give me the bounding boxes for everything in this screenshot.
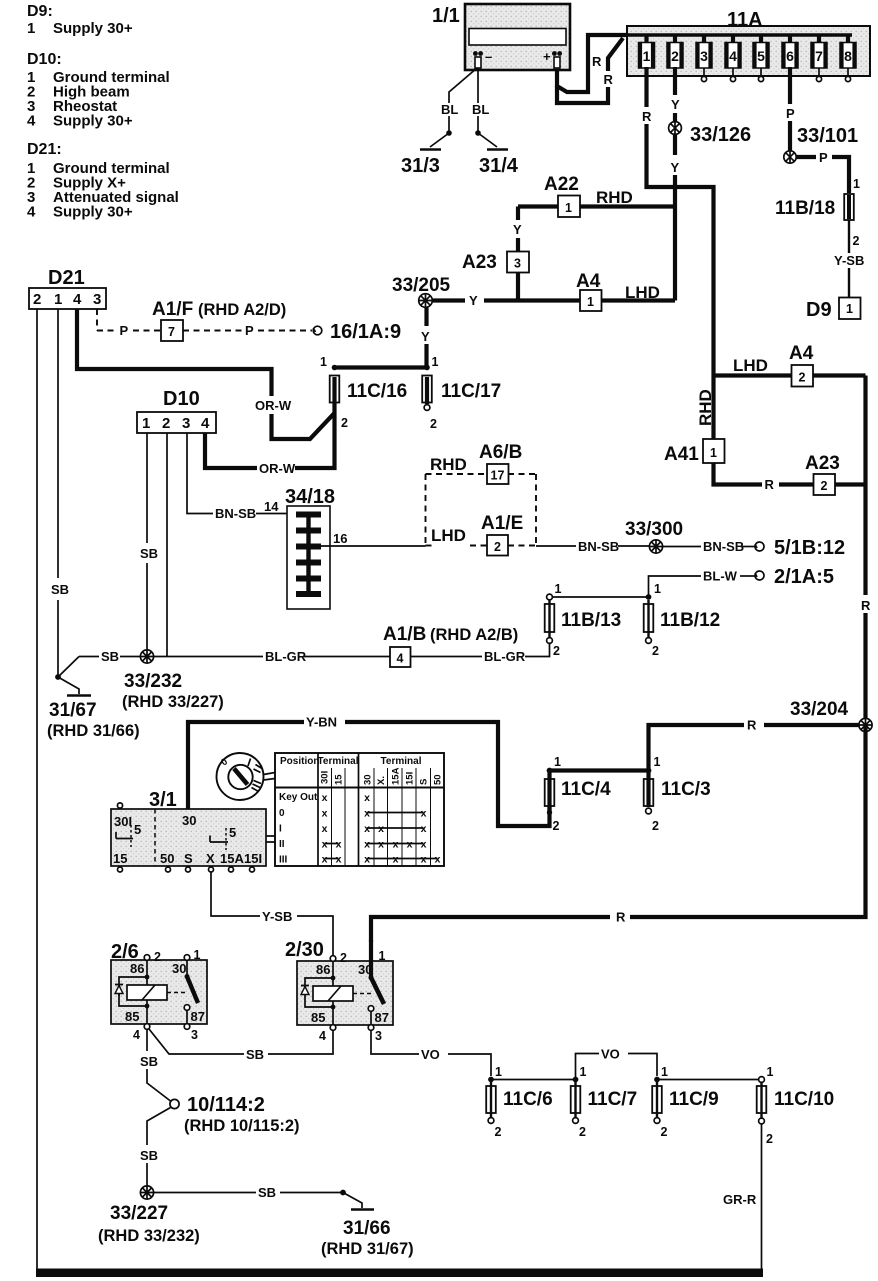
svg-text:P: P (245, 323, 254, 338)
svg-text:I: I (279, 824, 282, 835)
svg-text:III: III (279, 855, 288, 866)
svg-text:50: 50 (433, 774, 444, 785)
svg-text:3: 3 (700, 48, 708, 64)
relay 2/30 (285, 939, 393, 1043)
fuse 1 (639, 35, 655, 68)
svg-text:30: 30 (172, 961, 186, 976)
svg-text:8: 8 (844, 48, 852, 64)
svg-text:SB: SB (258, 1185, 276, 1200)
svg-text:31/66: 31/66 (343, 1218, 391, 1239)
svg-text:1: 1 (853, 177, 860, 191)
ground 31/67 (47, 657, 140, 741)
wire Y from fuse 2 down (673, 67, 677, 95)
relay 2/6 (111, 941, 207, 1042)
svg-text:31/3: 31/3 (401, 155, 440, 177)
svg-text:5: 5 (757, 48, 765, 64)
svg-text:15I: 15I (244, 851, 262, 866)
fuse box 11A (588, 9, 870, 76)
svg-text:3: 3 (182, 415, 190, 432)
svg-text:2: 2 (553, 819, 560, 833)
connector 11B/12 (644, 582, 721, 658)
splice 33/204 (790, 699, 872, 732)
svg-text:x: x (364, 854, 370, 866)
svg-text:x: x (322, 839, 328, 851)
svg-text:4: 4 (27, 113, 36, 130)
svg-text:33/227: 33/227 (110, 1203, 168, 1224)
svg-text:A6/B: A6/B (479, 442, 522, 463)
svg-text:11C/9: 11C/9 (669, 1089, 719, 1110)
svg-text:D21:: D21: (27, 141, 62, 158)
svg-text:1: 1 (142, 415, 150, 432)
wire P from fuse 6 down (788, 67, 792, 104)
fuse 2 (667, 35, 683, 68)
svg-text:Supply 30+: Supply 30+ (53, 204, 133, 221)
connector D10 (137, 388, 216, 433)
svg-text:(RHD 31/66): (RHD 31/66) (47, 722, 140, 740)
svg-text:11B/18: 11B/18 (775, 198, 835, 219)
svg-text:33/205: 33/205 (392, 275, 451, 296)
wire Y-BN from ignition to 11C/4 (188, 722, 304, 820)
svg-text:BL-W: BL-W (703, 569, 738, 584)
wire Y from splice down to 11C/17 (424, 307, 428, 326)
wire R right vertical (863, 376, 867, 596)
wire label R on loop B with gap (602, 71, 614, 87)
svg-text:2: 2 (430, 417, 437, 431)
svg-text:x: x (421, 823, 427, 835)
svg-text:R: R (642, 109, 652, 124)
svg-text:x: x (336, 854, 342, 866)
svg-text:P: P (786, 106, 795, 121)
svg-text:LHD: LHD (625, 283, 660, 302)
svg-text:R: R (747, 718, 757, 733)
svg-text:A1/E: A1/E (481, 513, 523, 534)
svg-text:x: x (322, 823, 328, 835)
svg-text:1: 1 (379, 949, 386, 963)
svg-text:S: S (184, 851, 193, 866)
inline connector A23 box 2 (805, 453, 840, 495)
svg-text:RHD: RHD (596, 188, 633, 207)
svg-text:1: 1 (846, 302, 853, 316)
wire pin16 of 34/18 (321, 545, 426, 547)
svg-text:2/1A:5: 2/1A:5 (774, 566, 834, 588)
svg-text:2/30: 2/30 (285, 939, 324, 961)
wire BN-SB to terminal 5/1B:12 (663, 546, 701, 548)
svg-text:11C/3: 11C/3 (661, 779, 711, 800)
inline connector A22 box 1 (544, 174, 633, 217)
svg-text:D9: D9 (806, 299, 832, 321)
inline connector A4 box 1 LHD (576, 271, 660, 311)
svg-text:1: 1 (54, 291, 62, 308)
svg-text:BL-GR: BL-GR (484, 649, 526, 664)
svg-text:4: 4 (319, 1029, 326, 1043)
position terminal table (275, 753, 444, 866)
wire D10 pin2 down to BL-GR row (166, 433, 168, 657)
svg-text:2: 2 (495, 1125, 502, 1139)
wire Y-SB from ignition X to relay 2/30 (211, 872, 260, 916)
svg-text:1: 1 (710, 446, 717, 460)
svg-text:D9:: D9: (27, 3, 53, 20)
svg-text:R: R (765, 477, 775, 492)
svg-text:1: 1 (654, 582, 661, 596)
junction dot BL right (475, 130, 481, 136)
svg-text:11B/13: 11B/13 (561, 610, 621, 631)
svg-text:R: R (604, 72, 614, 87)
svg-text:3: 3 (191, 1028, 198, 1042)
wire SB below 10/114:2 (147, 1108, 171, 1146)
svg-text:87: 87 (191, 1009, 205, 1024)
wire GR-R from 11C/10 pin2 down to bar (761, 1124, 763, 1271)
svg-text:33/232: 33/232 (124, 671, 182, 692)
svg-text:S: S (419, 779, 430, 785)
connector 11C/3 (644, 755, 711, 833)
svg-text:34/18: 34/18 (285, 486, 335, 508)
svg-text:VO: VO (421, 1047, 440, 1062)
svg-text:1: 1 (661, 1065, 668, 1079)
svg-text:R: R (616, 910, 626, 925)
svg-text:SB: SB (246, 1047, 264, 1062)
svg-text:1: 1 (643, 48, 651, 64)
svg-text:1: 1 (320, 355, 327, 369)
svg-text:D10: D10 (163, 388, 200, 410)
svg-text:16/1A:9: 16/1A:9 (330, 321, 401, 343)
svg-text:1: 1 (555, 582, 562, 596)
svg-text:2: 2 (553, 644, 560, 658)
fuse 5 (753, 35, 769, 82)
connector 11C/7 (571, 1065, 637, 1139)
svg-text:17: 17 (491, 469, 505, 483)
wire D21 pin3 dashed to A1/F (96, 309, 98, 331)
svg-text:11C/16: 11C/16 (347, 381, 407, 402)
svg-text:(RHD A2/D): (RHD A2/D) (198, 301, 286, 319)
terminal 10/114:2 (170, 1094, 300, 1135)
ground 31/66 (321, 1190, 414, 1258)
wire D10 pin1 SB down to splice (146, 433, 148, 543)
svg-text:4: 4 (729, 48, 737, 64)
ground 31/4 (478, 133, 497, 147)
fuse 8 (840, 35, 856, 82)
fuse 4 (725, 35, 741, 82)
wire VO second from 11C/7 pin1 (576, 1054, 600, 1080)
svg-text:31/4: 31/4 (479, 155, 519, 177)
svg-text:1: 1 (767, 1065, 774, 1079)
wire R down right edge to relay feed (630, 725, 866, 917)
svg-text:Key Out: Key Out (279, 792, 318, 803)
svg-text:x: x (393, 854, 399, 866)
terminal 2/1A:5 (755, 566, 834, 588)
svg-text:Terminal: Terminal (318, 756, 359, 767)
svg-text:33/101: 33/101 (797, 125, 858, 147)
svg-text:2: 2 (766, 1132, 773, 1146)
svg-text:10/114:2: 10/114:2 (187, 1094, 265, 1116)
svg-text:OR-W: OR-W (259, 461, 296, 476)
svg-text:x: x (364, 823, 370, 835)
svg-text:11C/4: 11C/4 (561, 779, 611, 800)
wire A22 RHD row (518, 204, 558, 208)
wire lamp feed 11C/9 to 11C/10 (657, 1079, 758, 1081)
svg-text:Y-SB: Y-SB (262, 909, 292, 924)
key symbol (217, 753, 276, 800)
svg-text:SB: SB (140, 1054, 158, 1069)
svg-text:2: 2 (33, 291, 41, 308)
connector 11C/17 (422, 355, 501, 431)
svg-text:4: 4 (201, 415, 210, 432)
svg-text:6: 6 (786, 48, 794, 64)
terminal 5/1B:12 (755, 537, 845, 559)
svg-text:x: x (336, 839, 342, 851)
wire pin1 to pin1 11C/16-11C/17 (335, 365, 428, 369)
dashed option block A6/B RHD and A1/E LHD (426, 442, 537, 556)
svg-text:2: 2 (799, 371, 806, 385)
fuse 3 (696, 35, 712, 82)
splice 33/101 (784, 125, 858, 163)
svg-text:Y: Y (421, 329, 430, 344)
legend text block top-left (27, 3, 179, 221)
svg-text:(RHD A2/B): (RHD A2/B) (430, 626, 518, 644)
svg-text:1: 1 (580, 1065, 587, 1079)
connector 11B/13 (545, 582, 622, 658)
svg-text:Y: Y (671, 160, 680, 175)
svg-text:BL: BL (441, 102, 458, 117)
svg-text:+: + (543, 49, 551, 64)
splice 33/300 (625, 519, 683, 553)
svg-text:85: 85 (311, 1010, 325, 1025)
svg-text:11C/17: 11C/17 (441, 381, 501, 402)
inline connector A1/F box 7 (152, 299, 286, 341)
svg-text:A23: A23 (462, 252, 497, 273)
svg-text:BN-SB: BN-SB (703, 539, 744, 554)
svg-text:3: 3 (93, 291, 101, 308)
svg-text:x: x (322, 792, 328, 804)
wire pin1 link 11C/4 to 11C/3 (550, 768, 649, 772)
svg-text:15A: 15A (220, 851, 244, 866)
svg-text:x: x (364, 839, 370, 851)
svg-text:14: 14 (264, 499, 279, 514)
svg-text:A4: A4 (789, 343, 814, 364)
svg-text:x: x (407, 839, 413, 851)
svg-text:1: 1 (495, 1065, 502, 1079)
battery 1/1 (432, 4, 570, 70)
svg-text:86: 86 (130, 961, 144, 976)
svg-text:SB: SB (101, 649, 119, 664)
svg-text:2: 2 (494, 540, 501, 554)
junction dot BL left (446, 130, 452, 136)
svg-text:3: 3 (375, 1029, 382, 1043)
svg-text:87: 87 (375, 1010, 389, 1025)
svg-text:RHD: RHD (430, 455, 467, 474)
svg-text:2: 2 (652, 819, 659, 833)
svg-text:1: 1 (587, 295, 594, 309)
svg-text:A1/F: A1/F (152, 299, 193, 320)
svg-text:SB: SB (140, 1148, 158, 1163)
svg-text:1: 1 (654, 755, 661, 769)
wire Y from A22 down through A23 (516, 207, 520, 221)
wire R from splice to 11C/3 (764, 723, 859, 727)
svg-text:(RHD 10/115:2): (RHD 10/115:2) (184, 1117, 300, 1135)
wire OR-W from D10 pin4 (205, 433, 257, 468)
svg-text:BN-SB: BN-SB (578, 539, 619, 554)
svg-text:2: 2 (162, 415, 170, 432)
connector D21 (29, 267, 106, 309)
svg-text:5/1B:12: 5/1B:12 (774, 537, 845, 559)
svg-text:2: 2 (853, 234, 860, 248)
wire D21 pin2 SB long left line (36, 309, 38, 1271)
svg-text:2: 2 (340, 951, 347, 965)
svg-text:–: – (485, 49, 492, 64)
svg-text:15: 15 (334, 774, 345, 785)
svg-text:x: x (435, 854, 441, 866)
svg-text:15I: 15I (405, 772, 416, 785)
svg-text:x: x (393, 839, 399, 851)
svg-text:x: x (322, 854, 328, 866)
svg-text:A22: A22 (544, 174, 579, 195)
svg-text:BL: BL (472, 102, 489, 117)
svg-text:OR-W: OR-W (255, 398, 292, 413)
splice 33/227 (98, 1186, 200, 1245)
svg-text:11B/12: 11B/12 (660, 610, 720, 631)
splice 33/205 (392, 275, 451, 308)
wire SB from 2/6 pin4 down (146, 1030, 148, 1052)
svg-text:D21: D21 (48, 267, 85, 289)
svg-text:LHD: LHD (733, 356, 768, 375)
svg-text:1: 1 (194, 948, 201, 962)
svg-text:Y: Y (513, 222, 522, 237)
svg-text:Y-BN: Y-BN (306, 715, 337, 730)
svg-text:D10:: D10: (27, 51, 62, 68)
svg-text:LHD: LHD (431, 526, 466, 545)
svg-text:Position: Position (280, 756, 319, 767)
svg-text:86: 86 (316, 962, 330, 977)
svg-text:4: 4 (133, 1028, 140, 1042)
wire LHD A4 row right (714, 373, 866, 377)
wire BL-W to terminal 2/1A:5 (649, 576, 702, 597)
svg-text:A41: A41 (664, 444, 699, 465)
wire BL right from battery minus (477, 68, 479, 103)
wire Y main row from splice to corner (432, 298, 465, 302)
connector 11C/4 (545, 755, 611, 833)
svg-text:X: X (206, 851, 215, 866)
svg-text:R: R (861, 598, 871, 613)
wire SB between relay pin4s (149, 1029, 244, 1054)
svg-text:2: 2 (579, 1125, 586, 1139)
connector 11B/18 (775, 177, 860, 250)
svg-text:R: R (592, 54, 602, 69)
svg-text:A23: A23 (805, 453, 840, 474)
ignition switch 3/1 (111, 789, 275, 872)
svg-text:1/1: 1/1 (432, 5, 460, 27)
terminal 16/1A:9 (313, 321, 401, 343)
svg-text:Y: Y (671, 97, 680, 112)
inline connector A23 box 3 (462, 252, 529, 274)
svg-text:Terminal: Terminal (381, 756, 422, 767)
wire battery plus loop A to fuse bus (557, 35, 632, 92)
wire BN-SB row to 33/300 (536, 545, 576, 547)
svg-text:x: x (421, 854, 427, 866)
svg-text:2: 2 (661, 1125, 668, 1139)
svg-text:x: x (364, 792, 370, 804)
svg-text:7: 7 (168, 325, 175, 339)
wire BL left from battery minus (449, 68, 477, 103)
ground 31/3 (430, 133, 449, 147)
svg-text:(RHD 31/67): (RHD 31/67) (321, 1240, 414, 1258)
svg-text:15: 15 (113, 851, 127, 866)
svg-text:Supply 30+: Supply 30+ (53, 113, 133, 130)
wire D21 pin1 SB (57, 309, 59, 578)
svg-text:5: 5 (134, 822, 141, 837)
svg-text:16: 16 (333, 531, 347, 546)
svg-text:x: x (378, 823, 384, 835)
svg-text:4: 4 (73, 291, 82, 308)
svg-text:SB: SB (51, 582, 69, 597)
svg-text:3: 3 (514, 257, 521, 271)
svg-text:Y-SB: Y-SB (834, 253, 864, 268)
svg-text:x: x (322, 808, 328, 820)
component 34/18 rheostat (285, 486, 335, 609)
svg-text:11C/10: 11C/10 (774, 1089, 834, 1110)
svg-text:4: 4 (397, 652, 404, 666)
inline connector A41 box 1 (664, 439, 725, 465)
splice 33/126 (668, 122, 751, 175)
wire D10 pin3 BN-SB to 34/18 pin14 (187, 433, 213, 514)
svg-text:x: x (421, 808, 427, 820)
svg-text:15A: 15A (391, 767, 402, 785)
svg-text:1: 1 (554, 755, 561, 769)
svg-text:2: 2 (671, 48, 679, 64)
svg-text:7: 7 (815, 48, 823, 64)
svg-text:GR-R: GR-R (723, 1192, 757, 1207)
svg-text:1: 1 (27, 20, 35, 37)
svg-text:11C/6: 11C/6 (503, 1089, 553, 1110)
svg-text:(RHD 33/227): (RHD 33/227) (122, 693, 224, 711)
svg-text:30I: 30I (320, 771, 331, 784)
svg-text:30: 30 (182, 813, 196, 828)
wire R from fuse 1 down (644, 67, 648, 107)
svg-text:1: 1 (432, 355, 439, 369)
svg-text:SB: SB (140, 546, 158, 561)
svg-text:2: 2 (341, 416, 348, 430)
svg-text:VO: VO (601, 1047, 620, 1062)
wire P from splice to 11B/18 (796, 155, 816, 159)
fuse 7 (811, 35, 827, 82)
splice 33/232 (122, 650, 224, 711)
svg-text:P: P (819, 150, 828, 165)
svg-text:1: 1 (565, 201, 572, 215)
svg-text:5: 5 (229, 825, 236, 840)
svg-text:x: x (421, 839, 427, 851)
svg-text:2: 2 (154, 950, 161, 964)
connector 11C/6 (486, 1065, 552, 1139)
svg-text:30I: 30I (114, 814, 132, 829)
svg-text:A4: A4 (576, 271, 601, 292)
wire Y-SB to D9 (848, 250, 850, 253)
svg-text:31/67: 31/67 (49, 700, 97, 721)
svg-text:A1/B: A1/B (383, 624, 426, 645)
wire VO from 2/30 pin3 (371, 1031, 419, 1055)
svg-text:33/300: 33/300 (625, 519, 683, 540)
wire SB from splice to ground 31/66 (154, 1192, 256, 1194)
wire OR-W from D21 pin4 (77, 309, 272, 396)
svg-text:33/204: 33/204 (790, 699, 849, 720)
svg-text:50: 50 (160, 851, 174, 866)
connector 11C/10 (757, 1065, 835, 1146)
svg-text:P: P (120, 323, 129, 338)
svg-text:Y: Y (469, 293, 478, 308)
wire SB ground row and BL-GR row (79, 656, 99, 658)
svg-text:2: 2 (652, 644, 659, 658)
inline connector A4 box 2 (789, 343, 814, 387)
svg-text:Supply 30+: Supply 30+ (53, 20, 133, 37)
wire pin1 link 11B/13 to 11B/12 (550, 596, 649, 598)
svg-text:11C/7: 11C/7 (588, 1089, 638, 1110)
